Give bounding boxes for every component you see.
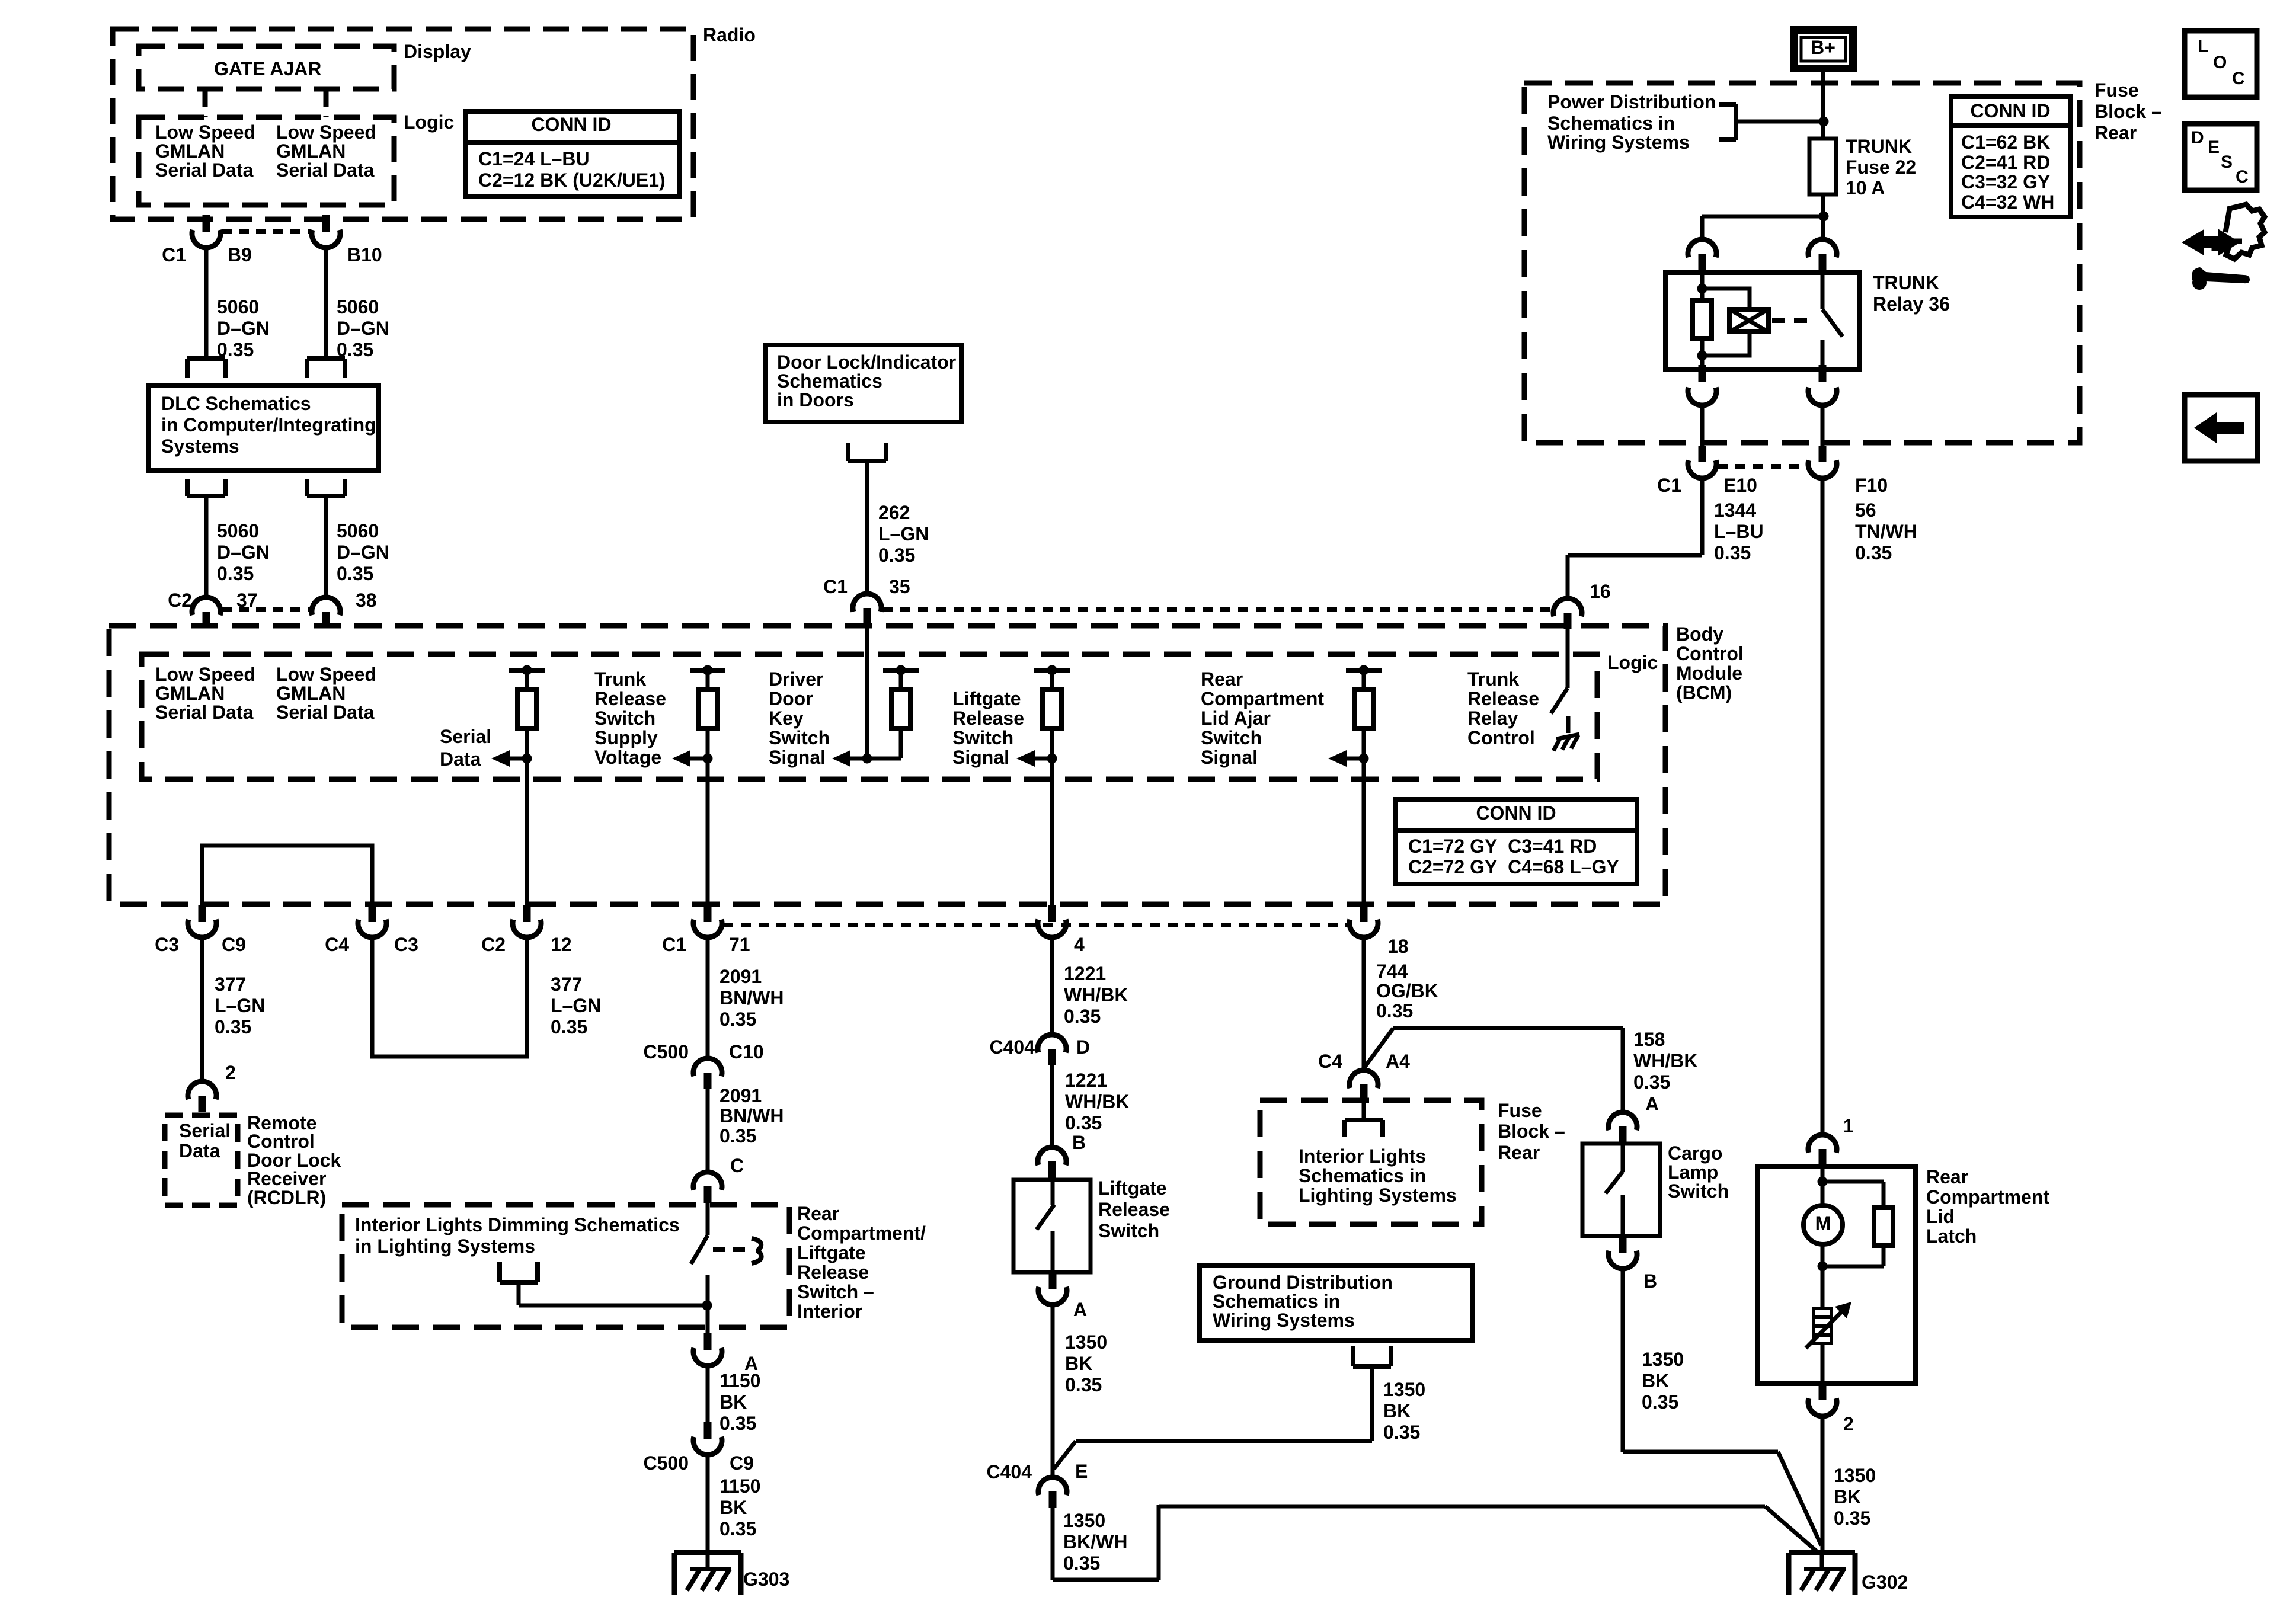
- label B10: [347, 244, 382, 265]
- svg-text:BK: BK: [720, 1497, 747, 1518]
- svg-text:A: A: [1073, 1299, 1087, 1320]
- fuse block rear box 1: [1524, 83, 2080, 443]
- svg-text:C1: C1: [162, 244, 186, 265]
- label C404 (D): [990, 1036, 1035, 1058]
- ground G303: [674, 1553, 741, 1595]
- svg-text:0.35: 0.35: [1855, 542, 1892, 564]
- svg-text:Schematics in: Schematics in: [1213, 1291, 1340, 1312]
- svg-text:Rear: Rear: [1926, 1166, 1968, 1188]
- svg-text:GMLAN: GMLAN: [276, 683, 346, 704]
- connector C1 pin B9: [192, 215, 220, 248]
- B+ terminal: [1794, 30, 1853, 69]
- svg-text:4: 4: [1074, 934, 1085, 955]
- svg-text:C: C: [2236, 167, 2249, 187]
- BCM relay control ground stub: [1566, 716, 1571, 733]
- label 16: [1590, 581, 1611, 602]
- svg-text:Release: Release: [594, 688, 666, 709]
- connector C500 pin C9: [693, 1422, 722, 1455]
- wire 1350 BK/WH to G302: [1053, 1505, 1819, 1580]
- svg-text:Display: Display: [404, 41, 471, 62]
- fuse block conn id title: [1970, 100, 2050, 121]
- svg-text:Lighting Systems: Lighting Systems: [1299, 1185, 1457, 1206]
- wire 1350 BK (cargo): [1623, 1269, 1821, 1545]
- wire relay coil to C1: [1700, 405, 1705, 446]
- wire 1221 WH/BK label 2: [1065, 1070, 1129, 1134]
- wire 1344 L-BU label: [1714, 500, 1764, 564]
- svg-text:B: B: [1643, 1270, 1657, 1292]
- svg-text:0.35: 0.35: [1376, 1000, 1413, 1022]
- svg-text:5060: 5060: [217, 296, 259, 318]
- svg-text:E: E: [1075, 1461, 1088, 1482]
- svg-text:E10: E10: [1723, 475, 1757, 496]
- label 71: [729, 934, 750, 955]
- interior lights dimming text: [355, 1214, 680, 1257]
- svg-text:C9: C9: [222, 934, 246, 955]
- connector C4 pin C3: [358, 905, 386, 937]
- svg-text:12: 12: [551, 934, 572, 955]
- svg-text:D: D: [2191, 128, 2204, 148]
- svg-text:377: 377: [551, 974, 582, 995]
- svg-text:2: 2: [225, 1062, 236, 1083]
- svg-text:S: S: [2221, 152, 2233, 172]
- wire 158 branch: [1364, 1028, 1623, 1068]
- wire 1221 WH/BK label 1: [1064, 963, 1128, 1027]
- wire 377 L-GN label (C9): [215, 974, 265, 1038]
- svg-text:C2: C2: [481, 934, 506, 955]
- svg-text:Module: Module: [1676, 662, 1742, 684]
- page link power distribution: [1719, 104, 1736, 140]
- svg-text:377: 377: [215, 974, 246, 995]
- relay switch: [1822, 272, 1843, 370]
- label E: [1075, 1461, 1088, 1482]
- svg-text:1221: 1221: [1065, 1070, 1107, 1091]
- svg-text:Switch: Switch: [769, 727, 830, 748]
- DLC schematics text: [161, 393, 376, 457]
- BCM conn id title: [1476, 802, 1556, 824]
- svg-text:744: 744: [1376, 961, 1408, 982]
- svg-text:Relay 36: Relay 36: [1873, 293, 1950, 315]
- svg-text:Voltage: Voltage: [594, 747, 661, 768]
- relay switch bottom connector: [1808, 365, 1837, 405]
- connector C4 pin 4: [1038, 905, 1066, 937]
- connector C1 pin 16: [1553, 598, 1582, 629]
- label D: [1076, 1036, 1090, 1058]
- wire relay switch to C1: [1821, 405, 1825, 446]
- label GATE AJAR: [214, 58, 321, 79]
- svg-text:D–GN: D–GN: [337, 318, 389, 339]
- svg-text:Switch: Switch: [1201, 727, 1262, 748]
- wire 5060 D-GN label (38): [337, 520, 389, 584]
- svg-text:C3=32 GY: C3=32 GY: [1961, 171, 2050, 193]
- label C3 (pin): [394, 934, 418, 955]
- wire 1350 BK (latch): [1821, 1416, 1825, 1551]
- rear compartment lid latch box: [1757, 1167, 1916, 1384]
- wire 2091 BN/WH label 2: [720, 1085, 784, 1147]
- radio module box: [113, 29, 693, 219]
- door lock indicator text: [777, 351, 956, 411]
- svg-text:M: M: [1815, 1212, 1831, 1234]
- BCM rear compartment lid ajar resistor: [1328, 665, 1382, 767]
- connector C3 pin C9: [188, 905, 216, 937]
- svg-text:L–GN: L–GN: [551, 995, 601, 1016]
- label A (interior): [744, 1353, 758, 1374]
- svg-text:(RCDLR): (RCDLR): [247, 1187, 326, 1208]
- BCM inner logic box: [142, 654, 1597, 779]
- svg-text:Low Speed: Low Speed: [276, 664, 376, 685]
- wire power distribution link: [1736, 120, 1824, 124]
- fuse block rear box 2: [1260, 1100, 1482, 1224]
- icon part locator: [2185, 204, 2265, 290]
- label 12: [551, 934, 572, 955]
- relay coil bottom connector: [1688, 365, 1716, 405]
- svg-text:C: C: [730, 1155, 744, 1176]
- svg-text:Block –: Block –: [2094, 101, 2162, 122]
- svg-text:GMLAN: GMLAN: [155, 683, 225, 704]
- svg-text:F10: F10: [1855, 475, 1888, 496]
- svg-text:Ground Distribution: Ground Distribution: [1213, 1272, 1393, 1293]
- wire 5060 D-GN label (37): [217, 520, 270, 584]
- BCM outer box: [109, 626, 1665, 904]
- radio conn id title: [531, 114, 611, 135]
- svg-text:Wiring Systems: Wiring Systems: [1213, 1310, 1355, 1331]
- svg-text:0.35: 0.35: [1065, 1112, 1102, 1134]
- svg-text:Liftgate: Liftgate: [797, 1242, 866, 1263]
- svg-text:0.35: 0.35: [215, 1016, 251, 1038]
- wire driver door key into BCM: [865, 628, 869, 758]
- svg-text:Wiring Systems: Wiring Systems: [1547, 132, 1690, 153]
- relay coil loop: [1702, 289, 1750, 356]
- svg-text:0.35: 0.35: [1064, 1006, 1101, 1027]
- icon DESC box: [2185, 124, 2257, 190]
- svg-text:Control: Control: [247, 1131, 315, 1152]
- svg-text:Low Speed: Low Speed: [155, 121, 255, 143]
- label 4: [1074, 934, 1085, 955]
- svg-text:Relay: Relay: [1467, 708, 1518, 729]
- wire 1221 WH/BK upper: [1050, 937, 1054, 1036]
- svg-text:0.35: 0.35: [1383, 1422, 1420, 1443]
- svg-text:Liftgate: Liftgate: [1098, 1177, 1167, 1199]
- svg-text:E: E: [2208, 137, 2220, 157]
- wire 1350 BK label (latch): [1834, 1465, 1876, 1529]
- svg-text:Signal: Signal: [1201, 747, 1258, 768]
- svg-text:38: 38: [356, 590, 377, 611]
- svg-text:Interior Lights: Interior Lights: [1299, 1145, 1426, 1167]
- connector C1 pin B10: [312, 215, 340, 248]
- svg-text:B9: B9: [228, 244, 252, 265]
- radio low speed gmlan label 2: [276, 121, 376, 181]
- svg-text:L–GN: L–GN: [215, 995, 265, 1016]
- label Rear Compartment Lid Latch: [1926, 1166, 2049, 1247]
- svg-text:Door Lock/Indicator: Door Lock/Indicator: [777, 351, 956, 373]
- svg-text:Data: Data: [179, 1140, 220, 1161]
- wire B10 to DLC: [324, 248, 328, 359]
- svg-text:in Doors: in Doors: [777, 389, 854, 411]
- wire 1350 BK label (cargo): [1642, 1349, 1684, 1413]
- wire 262 L-GN label: [878, 502, 929, 566]
- svg-text:0.35: 0.35: [878, 545, 915, 566]
- svg-text:C1: C1: [823, 576, 848, 597]
- RCDLR serial data box: [165, 1115, 238, 1205]
- svg-text:C3: C3: [155, 934, 179, 955]
- svg-text:Latch: Latch: [1926, 1225, 1977, 1247]
- radio display-logic link right edge: [324, 89, 329, 117]
- connector C1 dashed tie: [222, 229, 311, 234]
- svg-text:C1=62 BK: C1=62 BK: [1961, 132, 2050, 153]
- svg-text:C9: C9: [730, 1452, 754, 1474]
- svg-text:Fuse: Fuse: [2094, 79, 2139, 101]
- svg-text:WH/BK: WH/BK: [1065, 1091, 1129, 1112]
- connector RCDLR pin 2: [188, 1081, 216, 1112]
- svg-text:1150: 1150: [720, 1475, 760, 1497]
- wire 1150 BK label 2: [720, 1475, 760, 1539]
- svg-text:Serial Data: Serial Data: [155, 702, 254, 723]
- svg-text:0.35: 0.35: [337, 563, 373, 584]
- svg-text:Switch –: Switch –: [797, 1281, 874, 1302]
- label C500 (C10): [644, 1041, 689, 1062]
- icon LOC box: [2185, 31, 2257, 97]
- label Radio: [703, 24, 756, 46]
- label Serial Data (RCDLR): [179, 1120, 231, 1161]
- label C1 (exit): [662, 934, 686, 955]
- svg-text:Switch: Switch: [952, 727, 1013, 748]
- svg-text:Switch: Switch: [1668, 1180, 1729, 1202]
- label C9 (C500): [730, 1452, 754, 1474]
- svg-text:Signal: Signal: [769, 747, 826, 768]
- latch variable resistor: [1806, 1302, 1851, 1348]
- fuse block conn id box: [1951, 97, 2070, 217]
- label E10: [1723, 475, 1757, 496]
- latch wire top: [1821, 1166, 1825, 1205]
- svg-text:Compartment: Compartment: [1201, 688, 1324, 709]
- svg-text:Schematics: Schematics: [777, 370, 882, 392]
- svg-text:D: D: [1076, 1036, 1090, 1058]
- BCM trunk release supply resistor: [672, 665, 725, 767]
- wire 5060 D-GN label (B10): [337, 296, 389, 360]
- svg-text:71: 71: [729, 934, 750, 955]
- label Logic: [404, 111, 454, 133]
- label Remote Control Door Lock Receiver: [247, 1112, 341, 1208]
- liftgate release switch box: [1013, 1180, 1091, 1272]
- wire 158 WH/BK label: [1633, 1029, 1697, 1093]
- svg-text:1150: 1150: [720, 1370, 760, 1391]
- svg-text:Key: Key: [769, 708, 804, 729]
- wire 262 L-GN: [865, 461, 869, 595]
- wire 2091 BN/WH upper: [706, 937, 710, 1060]
- label Liftgate Release Switch: [1098, 1177, 1170, 1241]
- connector C1 dotted tie E10-F10: [1718, 464, 1807, 469]
- connector C2 pin 37: [192, 597, 220, 628]
- wire 1344 L-BU to pin 16: [1568, 478, 1702, 600]
- svg-text:Rear: Rear: [1498, 1142, 1540, 1163]
- label Body Control Module (BCM): [1676, 623, 1744, 703]
- connector C4 pin 18: [1350, 905, 1378, 937]
- svg-text:C2=41 RD: C2=41 RD: [1961, 152, 2050, 173]
- wire 1221 WH/BK lower: [1050, 1065, 1054, 1148]
- svg-text:Lid: Lid: [1926, 1206, 1955, 1227]
- label C1 (BCM top): [823, 576, 848, 597]
- svg-text:Trunk: Trunk: [594, 668, 646, 690]
- svg-text:Fuse: Fuse: [1498, 1100, 1542, 1121]
- label C500 (C9): [644, 1452, 689, 1474]
- svg-text:Low Speed: Low Speed: [155, 664, 255, 685]
- svg-text:L–GN: L–GN: [878, 523, 929, 545]
- BCM driver door key resistor: [867, 665, 919, 759]
- label Power Distribution Schematics: [1547, 91, 1716, 153]
- svg-text:O: O: [2213, 53, 2227, 72]
- svg-text:Cargo: Cargo: [1668, 1142, 1722, 1164]
- page link dimming: [500, 1262, 538, 1282]
- latch junction bottom: [1818, 1262, 1828, 1272]
- label B (cargo): [1643, 1270, 1657, 1292]
- fuse block conn id rows: [1961, 132, 2054, 213]
- label A4: [1386, 1051, 1410, 1072]
- svg-text:Lid Ajar: Lid Ajar: [1201, 708, 1271, 729]
- svg-text:TN/WH: TN/WH: [1855, 521, 1917, 542]
- svg-text:Compartment/: Compartment/: [797, 1222, 926, 1244]
- label Trunk Release Switch Supply Voltage: [594, 668, 666, 768]
- svg-text:BN/WH: BN/WH: [720, 1105, 784, 1126]
- svg-text:TRUNK: TRUNK: [1846, 136, 1912, 157]
- connector interior switch pin C: [693, 1172, 722, 1203]
- BCM relay control ground: [1553, 734, 1579, 751]
- svg-text:16: 16: [1590, 581, 1611, 602]
- svg-text:G303: G303: [743, 1569, 789, 1590]
- svg-text:C: C: [2232, 69, 2245, 88]
- radio display box: [139, 46, 394, 89]
- svg-text:C3: C3: [394, 934, 418, 955]
- svg-text:A: A: [1645, 1093, 1659, 1115]
- relay coil: [1693, 272, 1712, 370]
- page link below DLC (right): [307, 479, 345, 496]
- BCM liftgate release resistor: [1016, 665, 1070, 767]
- svg-text:Supply: Supply: [594, 727, 658, 748]
- ground G302: [1789, 1553, 1855, 1595]
- cargo lamp switch blade: [1606, 1144, 1623, 1236]
- relay switch top connector: [1808, 239, 1837, 270]
- connector C2 pin 38: [312, 597, 340, 628]
- svg-text:BN/WH: BN/WH: [720, 987, 784, 1009]
- interior switch actuator curl: [752, 1238, 762, 1263]
- wire 1350 BK (ground dist): [1054, 1366, 1372, 1469]
- label C4 (exit): [325, 934, 349, 955]
- label Fuse Block Rear 1: [2094, 79, 2162, 143]
- svg-text:Data: Data: [440, 748, 481, 770]
- BCM driver door key junction: [832, 750, 872, 767]
- BCM trunk release relay switch: [1551, 688, 1568, 713]
- DLC schematics box: [149, 386, 379, 470]
- latch resistor branch: [1822, 1182, 1893, 1266]
- label Liftgate Release Switch Signal: [952, 688, 1024, 768]
- label G303: [743, 1569, 789, 1590]
- wire 1150 BK upper: [706, 1366, 710, 1422]
- label B (liftgate switch): [1072, 1132, 1086, 1153]
- svg-text:B+: B+: [1811, 37, 1835, 58]
- svg-text:Driver: Driver: [769, 668, 824, 690]
- page link into DLC (right): [307, 359, 345, 378]
- connector C1 dotted tie to pin 16: [882, 607, 1552, 612]
- svg-text:L–BU: L–BU: [1714, 521, 1764, 542]
- svg-text:C2=12 BK (U2K/UE1): C2=12 BK (U2K/UE1): [478, 169, 666, 191]
- latch junction top: [1818, 1177, 1828, 1187]
- cargo lamp switch box: [1582, 1144, 1660, 1236]
- svg-text:Fuse 22: Fuse 22: [1846, 156, 1916, 178]
- svg-text:Release: Release: [952, 708, 1024, 729]
- connector cargo switch pin B: [1609, 1236, 1637, 1269]
- svg-text:1: 1: [1843, 1115, 1854, 1137]
- radio conn id box: [465, 111, 680, 197]
- latch motor: [1803, 1205, 1843, 1244]
- svg-text:Liftgate: Liftgate: [952, 688, 1021, 709]
- relay actuator dashes: [1772, 318, 1815, 323]
- svg-text:56: 56: [1855, 500, 1876, 521]
- svg-text:0.35: 0.35: [720, 1125, 756, 1147]
- svg-text:BK: BK: [1383, 1400, 1411, 1422]
- junction B+ 2: [1819, 212, 1829, 222]
- page link interior lights: [1345, 1101, 1383, 1137]
- label Rear Compartment Liftgate Release Switch Interior: [797, 1203, 926, 1322]
- svg-text:Door: Door: [769, 688, 813, 709]
- page link below DLC (left): [187, 479, 225, 496]
- label C2 (BCM top): [168, 590, 192, 611]
- connector C1 pin 71: [693, 905, 722, 937]
- wire 1350 BK label (ground dist): [1383, 1379, 1425, 1443]
- svg-text:CONN ID: CONN ID: [1476, 802, 1556, 824]
- svg-text:C4: C4: [1318, 1051, 1342, 1072]
- BCM serial data resistor: [491, 665, 545, 767]
- label TRUNK Fuse 22 10 A: [1846, 136, 1916, 199]
- svg-text:C1: C1: [1657, 475, 1681, 496]
- svg-text:Release: Release: [797, 1262, 869, 1283]
- svg-text:BK: BK: [1065, 1353, 1092, 1374]
- label F10: [1855, 475, 1888, 496]
- wire 744 OG/BK: [1362, 937, 1366, 1070]
- label C4 (A4): [1318, 1051, 1342, 1072]
- svg-text:1350: 1350: [1063, 1510, 1105, 1531]
- label Driver Door Key Switch Signal: [769, 668, 830, 768]
- svg-text:0.35: 0.35: [1642, 1391, 1678, 1413]
- label C9: [222, 934, 246, 955]
- svg-text:C500: C500: [644, 1041, 689, 1062]
- svg-text:0.35: 0.35: [1633, 1071, 1670, 1093]
- radio logic box: [139, 117, 394, 205]
- svg-text:Signal: Signal: [952, 747, 1009, 768]
- svg-text:Trunk: Trunk: [1467, 668, 1519, 690]
- label Serial Data: [440, 726, 491, 770]
- svg-text:C1=72 GY C3=41 RD: C1=72 GY C3=41 RD: [1408, 836, 1597, 857]
- svg-text:Serial Data: Serial Data: [276, 159, 375, 181]
- wire 1350 BK (liftgate): [1051, 1305, 1055, 1478]
- interior switch actuator dashes: [713, 1247, 746, 1252]
- svg-text:Interior: Interior: [797, 1301, 862, 1322]
- label Logic (BCM): [1607, 652, 1658, 673]
- wire trunk release relay control: [1566, 628, 1570, 688]
- icon back arrow box: [2185, 395, 2257, 461]
- wire 5060 D-GN label (B9): [217, 296, 270, 360]
- wire 377 L-GN label (12): [551, 974, 601, 1038]
- connector C2 pin 12: [513, 905, 541, 937]
- connector C404 pin D: [1038, 1035, 1066, 1065]
- svg-text:10 A: 10 A: [1846, 177, 1885, 199]
- svg-text:Serial: Serial: [179, 1120, 231, 1141]
- svg-text:1350: 1350: [1834, 1465, 1876, 1486]
- svg-text:B: B: [1072, 1132, 1086, 1153]
- radio low speed gmlan label 1: [155, 121, 255, 181]
- svg-text:Schematics in: Schematics in: [1547, 113, 1675, 134]
- wire 377 L-GN (C9): [200, 937, 204, 1083]
- svg-text:BK: BK: [1642, 1370, 1669, 1391]
- svg-text:2: 2: [1843, 1413, 1854, 1435]
- connector C1 pin E10: [1688, 446, 1716, 478]
